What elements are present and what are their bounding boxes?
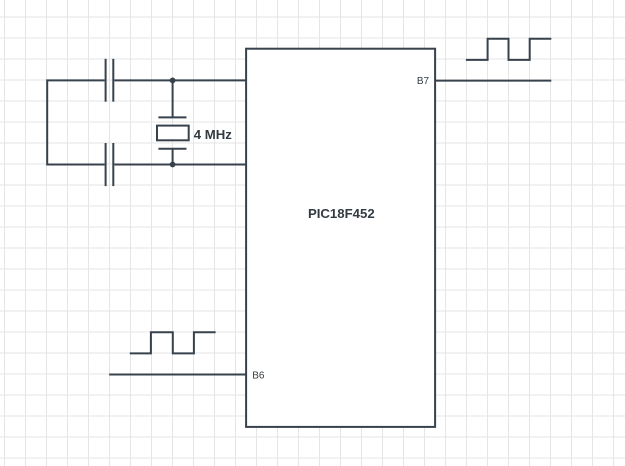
- square wave symbol at B7 output: [466, 39, 551, 60]
- crystal X1 body: [157, 126, 189, 141]
- IC U1 PIC18F452 body: [246, 49, 435, 427]
- crystal X1 (bottom electrode plate): [158, 148, 186, 150]
- wire: B6 input from square wave: [109, 374, 245, 376]
- junction: node OSC2 (bottom): [170, 162, 176, 168]
- capacitor C2 (bottom) plates: [106, 143, 114, 186]
- wire: B7 output to square wave: [436, 80, 551, 82]
- crystal X1 (top electrode plate): [158, 116, 186, 118]
- square wave symbol at B6 input: [130, 332, 216, 353]
- capacitor C1 (top) plates: [106, 59, 114, 102]
- wire: bottom net from C2 right plate to IC OSC pin: [114, 164, 245, 166]
- svg-text:PIC18F452: PIC18F452: [308, 206, 375, 221]
- wire: top net from C1 right plate to IC OSC pin: [114, 79, 245, 81]
- wire: crystal bottom stem: [172, 149, 174, 165]
- svg-text:B6: B6: [252, 371, 265, 382]
- svg-text:4 MHz: 4 MHz: [194, 127, 233, 142]
- junction: node OSC1 (top): [170, 78, 176, 84]
- svg-text:B7: B7: [417, 76, 430, 87]
- wire: crystal top stem: [172, 80, 174, 117]
- wire: left loop connecting C1 and C2 left plates: [47, 80, 104, 164]
